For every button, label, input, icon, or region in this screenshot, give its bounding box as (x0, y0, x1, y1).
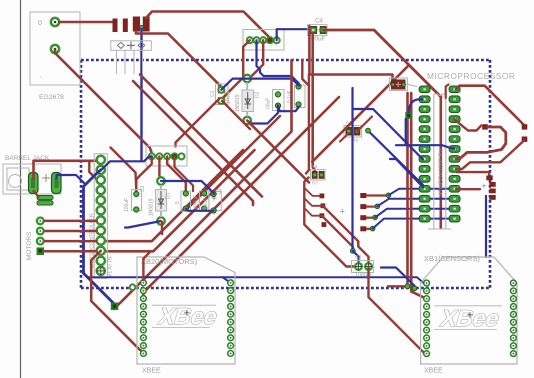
resistor R5 outline (181, 191, 191, 211)
wire header row3 down-left (bottom layer) (84, 170, 101, 273)
header JP2 pad 5 (178, 153, 184, 159)
svg-text:+: + (184, 308, 190, 320)
logo xbee2 (152, 303, 221, 328)
wire JP3 pad2 to C7 (bottom layer) (257, 40, 299, 83)
svg-text:M1 ATTN: M1 ATTN (108, 256, 114, 278)
capacitor u1 outline (209, 192, 222, 211)
label R5 (175, 201, 181, 204)
svg-text:R3: R3 (311, 164, 317, 170)
wire junction blue (381, 268, 415, 288)
via mid (366, 128, 371, 133)
svg-text:C3: C3 (355, 255, 362, 261)
capacitor C1 pad 2 (218, 97, 225, 104)
header MOTORCONTROLLER pads (97, 156, 106, 276)
capacitor C2 outline (132, 190, 142, 211)
wire bus diagonal E (107, 150, 243, 241)
header JP3 pad 5 (274, 37, 280, 43)
wire X1 pad2 diagonal to JP2 pad1 (55, 50, 152, 153)
wire blue via to IC (368, 131, 423, 185)
via before C3 (350, 248, 355, 253)
wire stub c (304, 208, 319, 216)
capacitor C9 pad 1 (202, 191, 207, 196)
wire barrel pad1 to bar (34, 191, 39, 197)
svg-text:C4: C4 (315, 18, 323, 25)
capacitor C8 pad 2 (296, 102, 301, 107)
via square left of IC (405, 112, 412, 119)
diode D2 pad 2 (243, 117, 251, 125)
label u1 (217, 188, 223, 194)
wire blue center vertical (351, 88, 353, 248)
board outline bottom edge (81, 287, 489, 290)
diode D1 leads (160, 185, 162, 217)
svg-text:D2: D2 (255, 91, 261, 98)
label XBEE right (424, 368, 443, 375)
capacitor C3 pad 2 (365, 263, 372, 270)
wire long vertical B (411, 93, 426, 299)
microprocessor left pads (419, 86, 430, 222)
svg-text:1N5819: 1N5819 (235, 94, 241, 112)
wire D1 pad2 diagonal (bottom layer) (125, 221, 161, 228)
label MOTORCONTROLLER (90, 213, 96, 268)
wire C4 pad1 down / branch to C5 (309, 26, 392, 79)
capacitor C5 body (391, 80, 406, 90)
svg-text:C2: C2 (140, 185, 146, 192)
label XBEE left (142, 368, 161, 375)
svg-text:R?: R? (312, 181, 318, 186)
diode D2 leads (246, 83, 248, 117)
wire P3 diag inner (456, 141, 524, 170)
capacitor C7 pad 2 (275, 103, 280, 108)
diode D1 pad 2 (157, 217, 165, 225)
svg-text:1N5819: 1N5819 (149, 198, 155, 216)
wire C-shape (456, 127, 506, 159)
module XB1 left pads (424, 280, 430, 356)
label D2 (255, 91, 261, 98)
wire fan blue 2 (377, 199, 452, 207)
label C9 value2 (203, 198, 209, 212)
fuse F1 smd pad B (123, 19, 128, 33)
wire D1 pad1 to u1 pad1 (bottom layer) (161, 181, 214, 194)
resistor R5 pad 1 (183, 191, 188, 196)
label C7 value (266, 98, 272, 109)
label C3 value (355, 273, 373, 279)
label M1ATTN (108, 256, 114, 278)
square pad P2 (522, 124, 528, 129)
via square bottom left (111, 303, 119, 311)
header MOTORCONTROLLER outline (94, 154, 107, 278)
wire blue H to IC (396, 145, 454, 148)
capacitor C1 pad 1 (218, 86, 225, 93)
label R3 (311, 164, 317, 170)
capacitor C4 outline (308, 25, 328, 36)
header JP3 pad 4 (267, 37, 273, 43)
logo xbee1 (434, 305, 503, 330)
capacitor C6 outline (344, 126, 362, 138)
wire MOTORS row3 (44, 240, 97, 243)
svg-text:+: + (482, 181, 487, 191)
via junction b (412, 286, 417, 291)
fuse F1 smd pad A (113, 19, 118, 33)
svg-text:EG2678: EG2678 (39, 94, 64, 101)
wire short vertical stub (302, 60, 309, 86)
wire red into xbee2 pad1 (143, 251, 151, 280)
svg-text:1000uF: 1000uF (355, 273, 373, 279)
capacitor C7 outline (273, 90, 285, 111)
wire bus diagonal A (140, 75, 262, 197)
resistor network pad c (320, 213, 325, 218)
resistor network pad d (322, 222, 327, 227)
wire C1 to JP2 diagonal (176, 99, 220, 147)
wire MOTORS row1 (44, 220, 97, 223)
wire pack d to via (366, 226, 375, 231)
wire JP2 pad1 to C2 (136, 156, 151, 190)
svg-text:MICROPROCESSOR: MICROPROCESSOR (427, 71, 515, 81)
wire D2 pad2 diagonal down right (247, 121, 309, 183)
wire blue right vertical (485, 196, 487, 257)
wire stair main (304, 178, 353, 267)
plus mark center (340, 207, 346, 218)
board outline top edge (81, 59, 490, 62)
header JP3 outline (243, 30, 284, 51)
label BARREL JACK (5, 155, 50, 162)
label C1 value (226, 90, 232, 104)
wire VIN from X1 pad1 to F1 (59, 21, 114, 24)
capacitor C1 outline (216, 84, 229, 105)
module XB1 right pads (511, 280, 517, 356)
wire JP2 pad2 to D1 (159, 156, 161, 181)
wire stair to C3 diag B (322, 216, 353, 250)
label C6 (346, 120, 352, 126)
wire C4 pad1 second vertical to R3 (313, 33, 315, 170)
wire stub a (304, 188, 319, 196)
capacitor C5 outline (390, 78, 408, 91)
wire vertical to stair top (306, 75, 309, 174)
capacitor u1 pad 1 (211, 191, 216, 196)
diode D1 body (156, 190, 167, 212)
resistor network pad b (321, 203, 326, 208)
header MOTORS pad 3 (37, 238, 44, 245)
diode D2 body (242, 90, 254, 112)
via junction a (405, 284, 410, 289)
wire bus diagonal C to via square (117, 60, 292, 306)
svg-text:u1: u1 (217, 188, 223, 194)
barrel jack pad 4 (37, 201, 53, 205)
wire stair to C3 diag A (323, 206, 369, 263)
wire fan blue 1 (388, 189, 452, 196)
wire bus diagonal C2 to xbee2 (143, 97, 339, 298)
wire blue branch to xbee2 pad (223, 277, 231, 283)
svg-text:C1: C1 (210, 90, 216, 97)
label C1 (210, 90, 216, 97)
label C9 value 1000uF (194, 195, 200, 212)
header JP3 pad 2 (253, 37, 259, 43)
wire D1 pad2 down (161, 221, 162, 234)
wire blue via to C3 (353, 251, 359, 263)
label C3 (355, 255, 362, 261)
wire pack a to via (366, 193, 391, 198)
wire JP2 pad4 down (175, 156, 194, 191)
label XB1(SENSORS) (424, 254, 480, 263)
capacitor C6 pad 1 (346, 127, 353, 136)
svg-text:MOTORS: MOTORS (26, 231, 33, 260)
wire C7 to C8 (bottom layer) (278, 106, 299, 112)
svg-text:XB1(SENSORS): XB1(SENSORS) (424, 254, 480, 263)
header JP2 pad 4 (171, 153, 177, 159)
header MOTORS pad 2 (37, 227, 44, 234)
regulator IC1 pin leads (117, 51, 143, 75)
wire barrel jack to motor header row0 (34, 161, 97, 178)
board outline right edge (489, 60, 492, 288)
resistor pack pad d (360, 226, 366, 231)
connector X1 EG2678 outline (30, 12, 80, 85)
label C2 (140, 185, 146, 192)
wire R5 pad2 to u1 pad2 (bottom layer) (186, 209, 214, 211)
svg-text:XBEE: XBEE (424, 368, 443, 375)
connector X1 pad 1 (51, 18, 60, 27)
wire blue bottom long horizontal (84, 273, 425, 284)
frame left border line (20, 0, 22, 378)
wire blue diag to IC row10 (390, 159, 423, 188)
plus mark right (482, 181, 487, 191)
wire JP3 pad5 to C4 (bottom layer) (277, 29, 311, 40)
svg-text:+: + (467, 310, 473, 322)
resistor R3 pad 2 (319, 171, 325, 179)
resistor R3 pad 1 (312, 171, 318, 179)
header JP2 pad 3 (164, 153, 170, 159)
label C2 value (124, 198, 130, 212)
barrel jack pad 1 (29, 173, 39, 194)
wire MOTORS row2 (44, 230, 97, 233)
wire stub b (304, 198, 320, 206)
wire from F1 down to JP1 pad (136, 31, 221, 90)
diode D1 pad 1 (157, 177, 165, 185)
svg-text:5: 5 (175, 201, 181, 204)
wire from L1 to header JP3 pad4 (146, 12, 270, 41)
svg-text:-: - (40, 74, 42, 80)
capacitor u1 pad 2 (211, 208, 216, 213)
wire fan blue 4 (373, 219, 453, 229)
svg-text:1000uF: 1000uF (194, 195, 200, 212)
wire IC center vertical (439, 96, 442, 228)
square pad Q4 (489, 195, 495, 200)
capacitor C4 pad 2 (320, 26, 328, 34)
wire IC row3 stub (454, 119, 481, 130)
wire branch down to row2 (89, 161, 101, 180)
header JP2 pad 1 (149, 153, 155, 159)
capacitor C2 pad 2 (134, 207, 139, 212)
wire header row9 to xbee2 (91, 251, 143, 353)
wire barrel jack pad2 to blue bus (bottom layer) (57, 175, 86, 185)
header JP3 pad 3 (260, 37, 266, 43)
svg-text:ATMEGA328P-PU: ATMEGA328P-PU (439, 148, 445, 196)
wire pack b to via (366, 204, 380, 209)
capacitor C3 pad 1 (355, 263, 362, 270)
header MOTORS pad 4 (37, 247, 45, 255)
square pad P1 (482, 124, 488, 129)
resistor pack pad b (360, 204, 366, 209)
svg-text:XBEE: XBEE (142, 368, 161, 375)
svg-text:XB20(MOTORS): XB20(MOTORS) (141, 257, 198, 266)
wire C1 to D2 to C8 (bottom layer) (221, 79, 299, 90)
module XB20 left pads (141, 280, 147, 356)
header JP2 outline (146, 146, 187, 166)
capacitor C9 pad 2 (202, 206, 207, 211)
capacitor C9 outline (200, 191, 210, 211)
diode D2 pad 1 (243, 75, 251, 83)
barrel jack X2 outline (3, 164, 61, 194)
board outline left edge (80, 60, 83, 288)
resistor pack pad a (360, 193, 366, 198)
module XB20 right pads (228, 280, 234, 356)
wire junction red horizontal (388, 285, 405, 287)
wire blue H diag (353, 109, 424, 160)
wire blue corner to xbee2 square (84, 273, 115, 304)
microprocessor IC outline (428, 94, 451, 229)
connector X1 pad 2 (51, 45, 60, 54)
barrel jack pad 2 (52, 173, 62, 194)
wire C6 stub (340, 133, 349, 142)
resistor pack pad c (360, 215, 366, 220)
inductor L1 smd pad B (143, 17, 150, 32)
square pad P3 (522, 137, 528, 142)
resistor R3 outline (311, 170, 326, 181)
microprocessor right pads (449, 86, 460, 222)
module XB1 outline (421, 257, 517, 364)
label ATMEGA328P-PU (439, 148, 445, 196)
wire header row1 to JP2 pad1 (bottom layer) (101, 156, 152, 170)
wire JP3 pad3 down to D2 (247, 40, 263, 78)
wire bus diagonal B (133, 81, 253, 205)
inductor L1 smd pad A (133, 17, 140, 32)
square pad Q1 (486, 176, 492, 181)
label R3b (312, 181, 318, 186)
svg-text:100uF: 100uF (226, 90, 232, 104)
wire C6 up right (357, 117, 372, 132)
label C8 value (287, 90, 293, 103)
wire C3 to xbee1 (369, 267, 427, 354)
wire IC row8 to squares (457, 172, 489, 176)
label MOTORS (26, 231, 33, 260)
wire JP3 pad1 down to C1 (221, 40, 250, 101)
wire blue vertical from L1 via (140, 28, 142, 161)
label EG2678 (39, 94, 64, 101)
square pad Q3 (489, 189, 495, 194)
svg-text:00uF: 00uF (266, 98, 272, 109)
wire fan blue 3 (375, 209, 453, 218)
label D2 1N5819 (235, 94, 241, 112)
capacitor C8 outline (295, 85, 306, 108)
wire JP2 pad3 to R5 (167, 156, 186, 193)
wire blue curve to IC row1 (409, 99, 424, 113)
svg-text:100uF: 100uF (124, 198, 130, 212)
barrel jack pad 3 (37, 196, 53, 200)
wire pack c to via (366, 215, 377, 220)
wire branch diagonal to stair (312, 65, 409, 162)
capacitor C8 pad 1 (296, 84, 301, 89)
label MICROPROCESSOR (427, 71, 515, 81)
wire C5 to IC silk (406, 84, 417, 87)
svg-text:D1: D1 (166, 192, 172, 199)
capacitor C7 pad 1 (275, 92, 280, 97)
wire C4 to microprocessor (long diagonal) (324, 30, 441, 97)
wire IC row0 to corner square (456, 86, 524, 125)
via on dashed line (130, 284, 136, 290)
via under L1 (140, 26, 144, 30)
square pad Q2 (489, 182, 495, 187)
label R6 (352, 138, 358, 144)
header JP3 pad 1 (247, 37, 253, 43)
header MOTORS pad 1 (37, 217, 44, 224)
capacitor C2 pad 1 (134, 191, 139, 196)
wire IC row10 to plus (456, 188, 480, 190)
label D1 1N5819 (149, 198, 155, 216)
wire diagonal into C2 (111, 148, 137, 191)
svg-text:0: 0 (38, 20, 42, 27)
capacitor C6 pad 2 (354, 127, 361, 136)
wire MOTORS row4 (44, 250, 97, 253)
wire C1 pad2 diagonal (222, 101, 250, 129)
capacitor C3 outline (352, 261, 374, 273)
module XB20 outline (137, 257, 235, 364)
wire bus diagonal F (107, 150, 255, 251)
wire blue square down (405, 119, 407, 145)
label C4 value 00uF (311, 36, 326, 43)
resistor network pad a (320, 194, 325, 199)
wire long vertical A (406, 93, 409, 285)
header JP2 pad 2 (156, 153, 162, 159)
label C4 (315, 18, 323, 25)
regulator IC1 outline (111, 41, 152, 51)
capacitor C4 pad 1 (310, 26, 318, 34)
label XB20(MOTORS) (141, 257, 198, 266)
wire D2 pad2 to C7 (bottom layer) (247, 106, 278, 124)
resistor R5 pad 2 (183, 206, 188, 211)
label D1 (166, 192, 172, 199)
svg-text:+: + (340, 207, 346, 218)
wire stub row1 up (446, 85, 449, 99)
wire bus diagonal D (187, 116, 281, 210)
